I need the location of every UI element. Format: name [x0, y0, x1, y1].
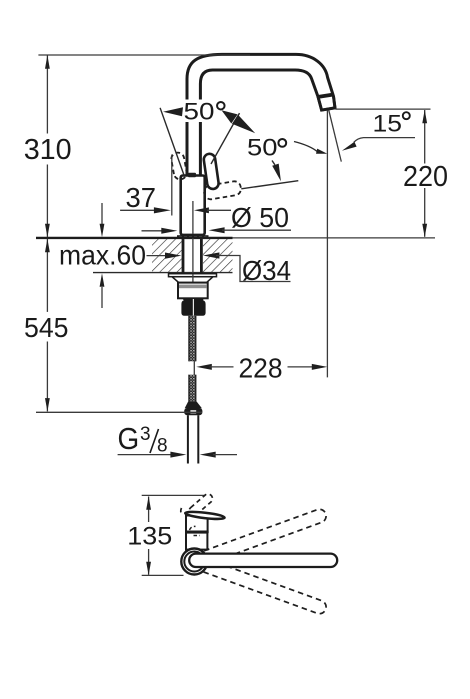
svg-text:135: 135 — [127, 523, 172, 551]
svg-text:37: 37 — [126, 182, 157, 213]
svg-text:228: 228 — [239, 352, 283, 383]
svg-text:545: 545 — [24, 312, 69, 343]
svg-text:310: 310 — [24, 134, 72, 166]
svg-text:G: G — [118, 421, 140, 456]
svg-text:50: 50 — [184, 98, 215, 125]
svg-text:Ø 50: Ø 50 — [231, 202, 289, 233]
svg-text:50: 50 — [247, 135, 278, 162]
svg-text:220: 220 — [403, 161, 448, 193]
svg-text:max.60: max.60 — [59, 239, 146, 270]
svg-text:3: 3 — [140, 424, 151, 445]
svg-text:15: 15 — [373, 110, 403, 137]
svg-text:8: 8 — [157, 436, 168, 457]
svg-text:Ø34: Ø34 — [242, 255, 291, 286]
